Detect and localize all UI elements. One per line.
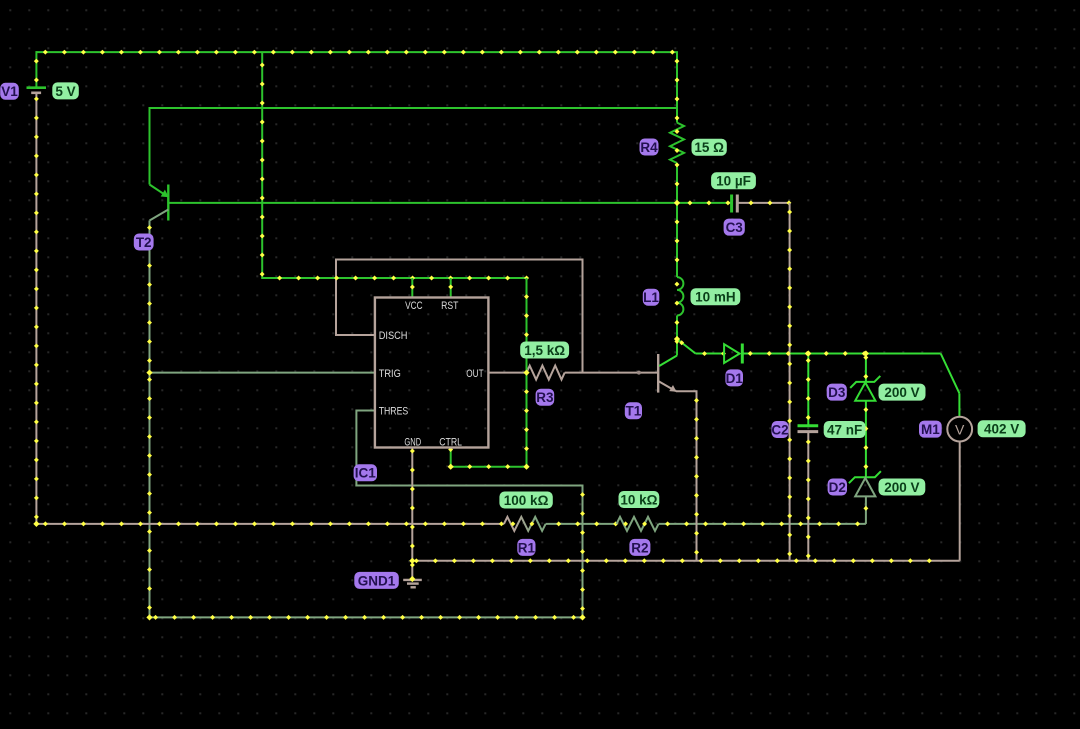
label value 10 kΩ	[619, 491, 660, 508]
label designator R3	[536, 389, 555, 406]
wire TRIG to T2 collector	[149, 372, 375, 374]
wire vertical to VCC rail	[260, 52, 265, 279]
svg-text:IC1: IC1	[355, 466, 377, 481]
label designator T2	[134, 234, 154, 251]
svg-text:L1: L1	[643, 290, 659, 305]
wire battery positive up	[34, 51, 39, 86]
svg-text:47 nF: 47 nF	[827, 422, 862, 437]
wire VCC/RST rail	[262, 276, 529, 281]
label value 200 V bottom	[879, 479, 926, 496]
label designator V1	[0, 83, 19, 100]
label designator D1	[725, 369, 743, 386]
svg-text:200 V: 200 V	[884, 480, 919, 495]
wire OUT pin to R3	[488, 372, 526, 374]
wire bottom ground rail	[412, 558, 959, 563]
wire C2 top branch	[806, 354, 811, 425]
svg-text:V: V	[955, 421, 965, 437]
resistor R3	[527, 366, 565, 380]
op-amp U1 555 timer IC1 body	[375, 298, 489, 448]
zener diode D3	[850, 376, 880, 401]
svg-text:10 µF: 10 µF	[716, 174, 751, 189]
svg-text:D3: D3	[828, 385, 846, 400]
wire C3 right side	[738, 200, 791, 205]
wire top DISCH rail	[335, 259, 584, 261]
label designator M1	[919, 421, 942, 438]
wire DISCH to left	[336, 259, 375, 337]
svg-text:M1: M1	[921, 422, 940, 437]
pin label RST	[441, 300, 459, 312]
wire RST pin stub	[448, 278, 453, 298]
svg-text:OUT: OUT	[466, 368, 483, 380]
label value 100 kΩ	[499, 492, 552, 509]
wire L1 to T1 collector	[674, 316, 679, 356]
wire bottom left to R1	[36, 521, 504, 526]
pin label GND	[404, 437, 421, 449]
wire CTRL loop bottom	[448, 464, 526, 469]
capacitor C3	[732, 195, 738, 213]
svg-text:D1: D1	[726, 371, 744, 386]
pin label VCC	[405, 300, 423, 312]
svg-text:CTRL: CTRL	[439, 437, 462, 449]
svg-text:5 V: 5 V	[55, 84, 75, 99]
label value 1,5 kΩ	[520, 342, 569, 359]
voltmeter M1	[947, 417, 972, 442]
label designator R2	[629, 539, 650, 556]
svg-text:10 mH: 10 mH	[695, 290, 736, 305]
svg-text:T1: T1	[626, 404, 642, 419]
wire D3 to D2	[863, 401, 868, 478]
wire vertical right of IC down	[580, 486, 585, 619]
pin label CTRL	[439, 437, 462, 449]
wire corner to M1	[941, 354, 960, 417]
wire vertical DISCH rail down to OUT node	[582, 259, 584, 373]
label value 47 nF	[824, 421, 866, 438]
wire T1 emitter down	[694, 391, 699, 561]
pin label OUT	[466, 368, 483, 380]
label value 15 Ω	[692, 139, 727, 156]
label designator D2	[828, 479, 847, 496]
svg-text:100 kΩ: 100 kΩ	[504, 493, 549, 508]
wire C3 vertical down right	[787, 203, 792, 561]
svg-text:V1: V1	[1, 84, 18, 99]
label value 10 mH	[691, 288, 741, 305]
svg-text:402 V: 402 V	[984, 422, 1019, 437]
resistor R2	[617, 517, 659, 531]
wire C2 bottom down	[806, 432, 811, 560]
label designator R4	[640, 139, 659, 156]
wire T2 base long horizontal	[169, 200, 732, 205]
wire THRES horizontal	[355, 485, 583, 487]
pin label DISCH	[379, 330, 408, 342]
label designator GND1	[354, 572, 399, 589]
svg-text:C2: C2	[771, 422, 788, 437]
wire T2 emitter rail	[150, 107, 679, 185]
svg-text:D2: D2	[829, 480, 846, 495]
label designator L1	[643, 289, 660, 306]
label designator R1	[517, 539, 535, 556]
svg-text:1,5 kΩ: 1,5 kΩ	[524, 343, 565, 358]
wire D3 top branch	[863, 354, 868, 382]
svg-text:R4: R4	[640, 140, 658, 155]
wire VCC pin stub	[410, 278, 415, 298]
label value 10 µF	[711, 172, 756, 189]
wire top rail	[36, 50, 678, 55]
svg-text:VCC: VCC	[405, 300, 423, 312]
svg-text:15 Ω: 15 Ω	[694, 140, 724, 155]
svg-text:RST: RST	[441, 300, 459, 312]
zener diode D2	[849, 471, 881, 496]
svg-text:THRES: THRES	[379, 406, 409, 418]
svg-text:10 kΩ: 10 kΩ	[620, 492, 657, 507]
pin label TRIG	[379, 368, 401, 380]
label designator C3	[724, 219, 745, 236]
wire T2 collector down left side	[147, 221, 152, 619]
svg-text:R2: R2	[631, 540, 648, 555]
label designator T1	[625, 402, 642, 419]
wire R4 top vertical	[674, 52, 679, 123]
svg-text:200 V: 200 V	[884, 385, 919, 400]
inductor L1	[674, 277, 683, 315]
ground GND1	[403, 580, 422, 587]
wire bottom return rail	[149, 615, 584, 620]
wire CTRL loop vertical	[524, 278, 529, 468]
wire M1 bottom	[959, 442, 961, 561]
wire D2 anode down	[863, 496, 868, 524]
wire CTRL pin stub	[448, 447, 453, 467]
wire R4 to L1	[675, 162, 680, 277]
wire GND pin down	[410, 448, 415, 580]
wire THRES left stub	[356, 410, 375, 487]
label value 200 V top	[879, 384, 926, 401]
wire R1 to R2	[546, 521, 619, 526]
capacitor C2	[798, 426, 819, 432]
label designator C2	[771, 421, 788, 438]
svg-text:GND: GND	[404, 437, 421, 449]
label value 5 V	[52, 82, 79, 99]
wire battery negative down	[34, 94, 39, 525]
svg-text:C3: C3	[726, 220, 744, 235]
resistor R4	[670, 123, 684, 163]
label designator D3	[827, 384, 847, 401]
wire D1 to output rail	[742, 351, 940, 356]
transistor T1	[658, 354, 697, 393]
transistor T2	[150, 185, 169, 221]
svg-text:R1: R1	[518, 540, 536, 555]
svg-text:TRIG: TRIG	[379, 368, 401, 380]
pin label THRES	[379, 406, 409, 418]
label designator IC1	[354, 464, 377, 481]
battery V1	[27, 88, 47, 93]
svg-text:GND1: GND1	[358, 573, 396, 588]
svg-text:R3: R3	[536, 390, 554, 405]
svg-text:DISCH: DISCH	[379, 330, 408, 342]
diode D1	[724, 344, 742, 364]
wire R3 to T1 base	[565, 371, 658, 375]
svg-text:T2: T2	[136, 235, 152, 250]
wire T1 collector node to D1	[677, 339, 726, 356]
wire R2 to D2	[659, 521, 866, 526]
label value 402 V	[978, 420, 1026, 437]
